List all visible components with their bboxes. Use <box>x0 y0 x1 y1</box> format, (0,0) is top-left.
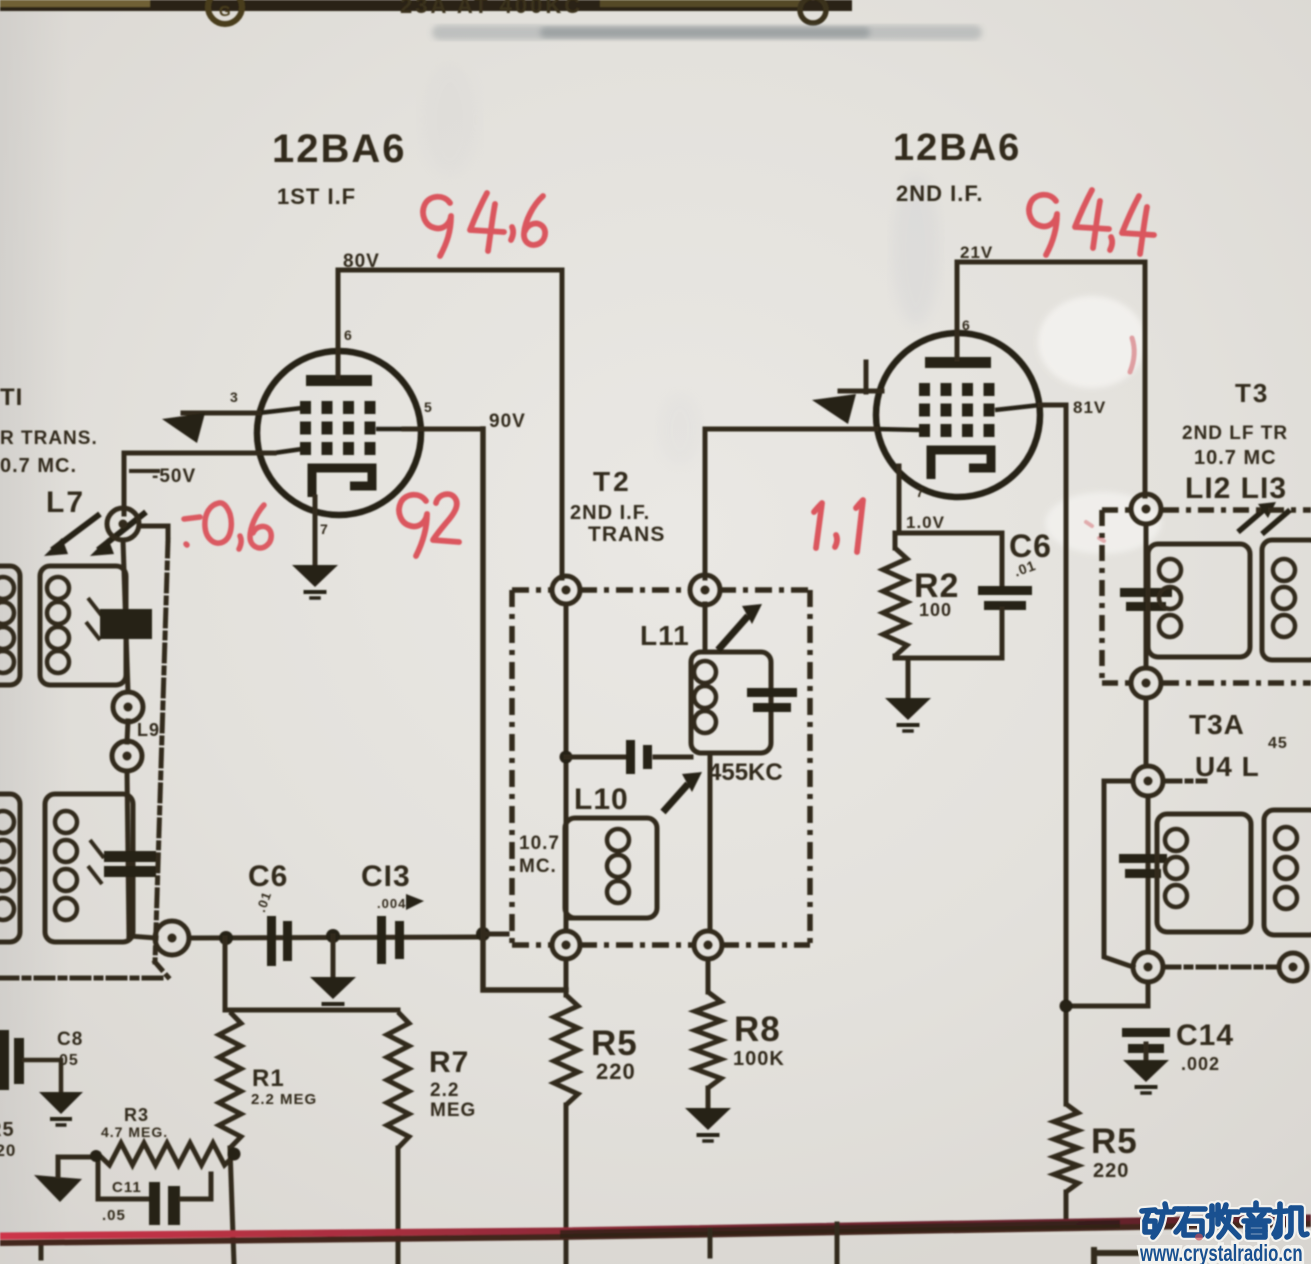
dashed T3A top <box>1165 779 1205 784</box>
capacitor C6 left <box>267 916 292 966</box>
svg-text:T2: T2 <box>593 466 632 497</box>
svg-text:R5: R5 <box>591 1024 638 1063</box>
wire between T1 terminals <box>127 721 128 742</box>
svg-text:2ND I.F.: 2ND I.F. <box>570 502 650 524</box>
bottom bus dark line <box>0 1224 1311 1243</box>
wire T1 secondary <box>123 540 128 692</box>
svg-text:R TRANS.: R TRANS. <box>0 428 98 449</box>
V1 grid connector stubs <box>259 408 404 453</box>
wire coupling left <box>566 755 624 760</box>
arrow on V1 grid lead <box>162 413 205 443</box>
wire V1 cathode pin7 to ground <box>313 497 318 565</box>
wire R3 left extension <box>58 1155 98 1160</box>
terminal T2 pin2 bottom-left <box>552 931 580 959</box>
svg-text:CI3: CI3 <box>361 860 411 893</box>
wire cathode top rail <box>899 531 1002 536</box>
dashed box T2 <box>512 590 810 945</box>
svg-text:2ND LF TR: 2ND LF TR <box>1182 423 1288 444</box>
svg-text:U4 L: U4 L <box>1195 751 1260 782</box>
coil T3A <box>1157 814 1251 932</box>
partial coil at left edge upper <box>0 566 20 685</box>
wire partial bottom right v <box>1091 1250 1097 1264</box>
tuning arrow inside L9 box <box>88 840 104 884</box>
terminal T1 middle upper <box>113 692 143 722</box>
coil L9 winding box <box>45 794 133 942</box>
svg-text:81V: 81V <box>1073 398 1106 417</box>
red handwritten -0.6 <box>184 503 271 549</box>
resistor R7 2.2 MEG <box>387 1012 409 1148</box>
small arrow beside C13 value <box>406 894 424 910</box>
wire cathode bottom rail <box>895 656 1002 661</box>
ground arrow left of C11 <box>34 1175 82 1202</box>
terminal T2 pin1 top-left <box>552 576 580 604</box>
terminal T3A bottom-left <box>1133 952 1163 982</box>
wire C6 top lead <box>1000 533 1005 586</box>
wire T3A left loop <box>1104 781 1133 967</box>
junction <box>219 931 233 945</box>
wire stub below bus <box>708 1230 713 1256</box>
wire T2 pin2 down <box>564 959 569 995</box>
wire T3A down <box>1146 982 1151 1006</box>
wire V2 pin5 long down <box>1064 405 1069 1104</box>
ground C14 <box>1123 1060 1169 1093</box>
wire stub to dashed line <box>139 526 168 540</box>
svg-text:455KC: 455KC <box>708 759 783 786</box>
svg-text:0.7 MC.: 0.7 MC. <box>0 455 77 477</box>
wire V2 control grid <box>705 427 876 432</box>
junction <box>326 929 340 943</box>
tuning arrow L11 <box>718 616 748 650</box>
wire V1 pin5 out <box>404 427 483 432</box>
svg-text:.004: .004 <box>377 896 406 911</box>
tick below bus <box>39 1246 44 1258</box>
red handwritten 92 <box>399 494 459 556</box>
wire to AVC arrow <box>56 1157 61 1176</box>
svg-text:220: 220 <box>596 1059 636 1084</box>
wire L11 bottom lead <box>708 753 713 931</box>
wire V2 plate lead pin6 <box>955 262 960 359</box>
tuning arrow inside L7 box <box>86 598 102 640</box>
coil L13 partial <box>1262 540 1311 660</box>
svg-text:23A AT 400KC: 23A AT 400KC <box>400 0 583 18</box>
wire partial bottom right h <box>1094 1250 1140 1256</box>
svg-text:MC.: MC. <box>519 856 557 877</box>
wire resistor top rail <box>225 1008 398 1013</box>
coil T3A partial right <box>1264 810 1311 935</box>
wire R2 bottom <box>893 656 898 658</box>
svg-text:R5: R5 <box>0 1119 15 1141</box>
capacitor T1 upper slug <box>100 609 152 639</box>
svg-text:R7: R7 <box>429 1046 469 1079</box>
svg-text:TRANS: TRANS <box>588 523 665 546</box>
svg-text:R1: R1 <box>252 1065 285 1092</box>
svg-text:2.2 MEG: 2.2 MEG <box>251 1091 317 1108</box>
svg-text:.05: .05 <box>102 1207 126 1224</box>
wire V2 plate to B+ horizontal <box>957 260 1145 265</box>
resistor R8 100K <box>695 992 721 1088</box>
svg-text:12BA6: 12BA6 <box>893 127 1021 169</box>
tube V1 12BA6 1st IF amplifier <box>257 351 421 515</box>
dashed T1 corner <box>155 962 168 977</box>
wire below bus <box>835 1224 840 1264</box>
wire down to T1 secondary <box>122 453 127 514</box>
junction <box>90 1150 102 1162</box>
dashed box T3 <box>1102 510 1311 683</box>
ground node AVC <box>310 977 356 1010</box>
svg-text:1.0V: 1.0V <box>906 513 945 532</box>
wire R5 right bottom <box>1064 1192 1069 1220</box>
stub V2 pin <box>840 389 882 394</box>
junction <box>228 1148 241 1161</box>
wire R5 bottom to bus <box>564 1105 569 1264</box>
svg-text:2ND I.F.: 2ND I.F. <box>896 181 983 206</box>
wire grid down to T2 pin4 <box>703 429 708 578</box>
terminal T1 bottom output <box>155 921 189 955</box>
wire junction to C14 <box>1066 1004 1148 1009</box>
svg-text:90V: 90V <box>489 411 526 432</box>
svg-text:LI2 LI3: LI2 LI3 <box>1185 472 1287 505</box>
terminal T1 pin top <box>107 508 139 540</box>
svg-text:10.7 MC: 10.7 MC <box>1194 447 1277 469</box>
coil L7 winding box <box>40 566 126 685</box>
resistor R1 2.2 MEG <box>219 1012 241 1148</box>
wire R8 to ground <box>706 1088 711 1108</box>
wire T1 lower coil <box>127 771 129 936</box>
red handwritten 1.1 <box>814 500 863 552</box>
tick V2 pin <box>864 362 869 392</box>
svg-text:TI: TI <box>0 384 23 411</box>
tuning arrow L10 <box>663 784 688 812</box>
coil L10 <box>565 818 657 918</box>
dashed T1 bottom edge <box>0 976 168 981</box>
resistor R5 220 <box>554 995 578 1105</box>
capacitor C8 .05 <box>0 1030 24 1090</box>
watermark blue CJK strokes <box>1142 1203 1307 1237</box>
svg-text:100: 100 <box>919 600 952 620</box>
tube V2 12BA6 2nd IF amplifier <box>876 333 1040 497</box>
capacitor across L11 455KC <box>747 688 797 712</box>
watermark white outline <box>1142 1203 1307 1237</box>
junction <box>476 927 490 941</box>
svg-text:C11: C11 <box>112 1179 142 1196</box>
svg-text:4.7 MEG.: 4.7 MEG. <box>101 1124 168 1140</box>
wire AVC node row <box>189 937 476 938</box>
wire T2 L11 top lead <box>703 604 708 652</box>
wire V1 screen grid pin3 <box>183 411 259 416</box>
wire C6 bottom lead <box>1000 609 1005 658</box>
wire coupling right <box>655 755 691 760</box>
svg-text:G: G <box>219 3 231 20</box>
svg-text:7: 7 <box>320 521 328 537</box>
svg-text:C14: C14 <box>1176 1019 1234 1052</box>
capacitor C6 cathode bypass <box>978 586 1032 610</box>
coil L11 <box>691 652 771 753</box>
red leftover marks right of V2 <box>1130 338 1134 372</box>
svg-text:L10: L10 <box>574 783 629 816</box>
svg-text:80V: 80V <box>343 251 380 272</box>
wire V1 pin5 down to T2 secondary <box>483 429 566 990</box>
wire B+ down to T2 primary <box>560 270 565 578</box>
svg-text:12BA6: 12BA6 <box>272 127 407 171</box>
svg-text:10.7: 10.7 <box>519 833 560 854</box>
ground R8 <box>685 1108 731 1141</box>
svg-text:L11: L11 <box>640 620 690 651</box>
wire node to T2 box <box>483 932 507 937</box>
svg-text:100K: 100K <box>733 1048 785 1070</box>
terminal T3 bottom <box>1131 668 1161 698</box>
svg-text:21V: 21V <box>960 243 993 262</box>
svg-text:3: 3 <box>230 389 238 405</box>
tick before -50V <box>131 469 158 473</box>
svg-text:1ST I.F: 1ST I.F <box>277 184 356 209</box>
capacitor coupling T2 <box>626 740 652 774</box>
junction <box>1060 1000 1073 1013</box>
wire R1 bottom to bus <box>230 1148 234 1264</box>
capacitor C14 .002 <box>1122 1028 1170 1053</box>
wire C11 to R3 right <box>181 1174 211 1199</box>
svg-text:R8: R8 <box>734 1010 781 1049</box>
svg-text:R5: R5 <box>1091 1122 1138 1161</box>
wire B+ down to T3 primary <box>1143 262 1148 496</box>
resistor R5 220 right <box>1054 1104 1078 1192</box>
svg-text:www.crystalradio.cn: www.crystalradio.cn <box>1139 1242 1302 1264</box>
wire L10 bottom <box>566 916 600 921</box>
wire AVC down <box>223 938 228 1010</box>
svg-text:MEG: MEG <box>430 1100 476 1121</box>
terminal T3 top <box>1131 494 1161 524</box>
wire T3 internal <box>1144 524 1149 668</box>
wire C14 to ground <box>1144 1044 1149 1060</box>
dashed T1 right edge <box>155 540 168 962</box>
svg-text:45: 45 <box>1268 735 1288 752</box>
watermark url <box>1139 1242 1302 1264</box>
wire R2 top <box>893 533 898 548</box>
wire V1 control grid pin1 from T1 <box>124 451 274 456</box>
svg-text:7: 7 <box>916 484 924 500</box>
coil L12 <box>1148 544 1250 657</box>
wire T3A internal <box>1146 796 1151 952</box>
terminal T1 middle lower <box>112 741 142 771</box>
capacitor T1 lower trimmer <box>104 851 156 877</box>
terminal T3A top <box>1133 766 1163 796</box>
terminal T2 pin4 top-right <box>690 575 720 605</box>
bottom bus red line <box>0 1218 1311 1236</box>
tuning arrows T1 <box>52 514 100 550</box>
capacitor T3 trimmer <box>1120 588 1172 611</box>
resistor R2 100 <box>883 548 907 656</box>
ground C8 <box>39 1092 83 1125</box>
wire to ground node <box>331 936 336 977</box>
resistor R3 4.7 MEG horizontal <box>98 1143 236 1165</box>
junction <box>560 751 573 764</box>
terminal T3A bottom-right <box>1279 953 1307 981</box>
arrow on V2 grid lead <box>812 394 856 424</box>
terminal G on top bus <box>208 0 242 24</box>
capacitor C13 <box>377 916 404 964</box>
capacitor T3A <box>1119 854 1167 878</box>
wire V1 plate lead pin6 <box>336 270 341 377</box>
svg-text:L7: L7 <box>46 486 85 519</box>
terminal T2 pin5 bottom-right <box>694 931 722 959</box>
wire to ground V2 <box>906 658 911 698</box>
ground V2 cathode <box>885 698 931 731</box>
top bus wire <box>0 0 852 11</box>
svg-text:220: 220 <box>1093 1160 1129 1182</box>
svg-text:R3: R3 <box>124 1105 149 1125</box>
partial coil at left edge lower <box>0 794 20 942</box>
wire C8 to ground <box>24 1060 61 1092</box>
wire T3 to T3A <box>1144 698 1149 766</box>
wire V2 pin5 out <box>1040 403 1066 408</box>
wire R3 to C11 left <box>98 1154 150 1199</box>
svg-text:L9: L9 <box>137 720 160 740</box>
wire V2 cathode pin7 <box>897 466 902 533</box>
svg-text:5: 5 <box>424 399 432 415</box>
wire T2 pin5 down <box>706 959 711 992</box>
capacitor C11 .05 <box>149 1182 180 1225</box>
svg-text:6: 6 <box>962 317 970 333</box>
svg-text:T3: T3 <box>1235 378 1269 408</box>
terminal on top bus right <box>800 0 826 23</box>
svg-text:T3A: T3A <box>1189 709 1245 740</box>
blurred stamp text <box>432 25 982 40</box>
wire V1 plate to B+ horizontal <box>338 268 562 273</box>
V2 grid connector stubs <box>876 405 1040 430</box>
svg-text:6: 6 <box>344 327 352 343</box>
svg-text:C6: C6 <box>248 860 288 893</box>
svg-text:220: 220 <box>0 1141 16 1160</box>
dashed T3A bottom <box>1163 965 1279 970</box>
svg-text:2.2: 2.2 <box>430 1080 459 1101</box>
red handwritten 94.6 <box>423 193 545 256</box>
tuning arrows T3 <box>1238 508 1290 534</box>
wire R7 bottom to bus <box>396 1148 401 1264</box>
wire T2 left internal <box>564 604 569 931</box>
svg-text:C8: C8 <box>57 1029 83 1050</box>
wire T1 out to terminal <box>129 936 156 938</box>
ground V1 cathode <box>292 565 338 598</box>
red handwritten 94.4 <box>1029 190 1154 255</box>
svg-text:.002: .002 <box>1181 1054 1220 1074</box>
